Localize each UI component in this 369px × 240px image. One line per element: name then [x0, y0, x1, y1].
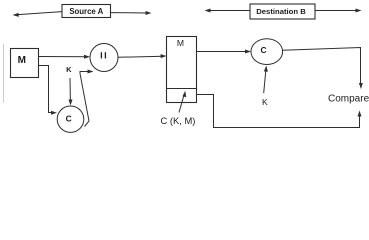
wire: K up into verify C [264, 66, 268, 94]
wire: concat to transmitted block [118, 54, 167, 58]
circle C (MAC function, sender) [57, 106, 84, 132]
circle concat (||) [90, 44, 118, 72]
svg-text:C: C [260, 45, 266, 55]
box transmitted block M | C(K,M) [167, 37, 197, 103]
wire: block M part to verify C [197, 50, 252, 54]
svg-text:Compare: Compare [328, 94, 369, 105]
box Destination B [250, 4, 315, 19]
label K (right key) [262, 97, 268, 107]
box Source A [62, 5, 111, 18]
box M (source message) [11, 49, 39, 78]
label C (K, M) [161, 115, 196, 126]
svg-text:C (K, M): C (K, M) [161, 115, 196, 126]
wire: block bottom to Compare (bottom rail) [197, 95, 362, 128]
svg-text:M: M [18, 55, 26, 66]
wire: C(K,M) label up into block bottom compartment [179, 91, 186, 113]
wire: M down to MAC function C [39, 66, 58, 115]
svg-text:Source A: Source A [69, 7, 103, 16]
wire: M to concat circle [39, 55, 91, 59]
label Compare [328, 94, 369, 105]
wire: Source A left arrow [13, 12, 63, 17]
svg-text:Destination B: Destination B [256, 7, 306, 16]
svg-text:K: K [262, 97, 268, 107]
wire: Source A right arrow [111, 11, 152, 15]
gray canvas edge [3, 44, 5, 103]
svg-text:M: M [177, 38, 184, 48]
wire: Destination B right arrow [315, 9, 362, 13]
label K (left key) [66, 65, 72, 74]
wire: verify C output down to Compare [283, 48, 363, 90]
svg-text:K: K [66, 65, 72, 74]
wire: Destination B left arrow [205, 9, 251, 13]
wire: K down into C [69, 78, 73, 106]
svg-text:C: C [66, 114, 72, 124]
wire: C output up into concat circle [80, 70, 94, 127]
ellipse C (MAC function, receiver) [251, 39, 283, 65]
